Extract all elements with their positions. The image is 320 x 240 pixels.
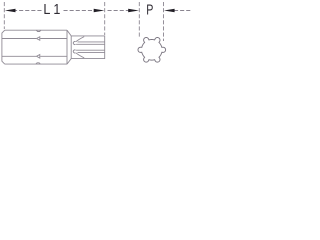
torx end view star xyxy=(138,38,166,63)
torx flute band 2 runout curve and cap xyxy=(73,50,84,58)
torx flute band 2 lower line xyxy=(78,52,105,54)
arrowhead P right (outside, pointing left) xyxy=(164,9,175,13)
chamfer triangle on lower facet line xyxy=(37,55,40,59)
dimension line L1 right segment xyxy=(64,10,95,12)
torx flute band 2 upper line xyxy=(76,49,105,51)
torx flute band 1 upper line xyxy=(78,41,105,43)
extension line left of P xyxy=(138,2,140,39)
hex facet line upper xyxy=(2,38,67,40)
torx flute band 1 lower line xyxy=(76,43,105,45)
hex shank outline (side view) with chamfered left end xyxy=(2,30,67,64)
hex facet line lower xyxy=(2,55,67,57)
svg-text:L 1: L 1 xyxy=(43,2,60,18)
cone lower edge xyxy=(67,59,71,65)
dimension line P left outside segment xyxy=(108,10,130,12)
notch on hex top edge xyxy=(36,30,41,31)
chamfer triangle on upper facet line xyxy=(37,37,40,41)
torx tip outline (side view) xyxy=(71,36,105,59)
arrowhead L1 right xyxy=(94,9,105,13)
arrowhead L1 left xyxy=(5,9,16,13)
arrowhead P left (outside, pointing right) xyxy=(128,9,139,13)
bump on hex bottom edge xyxy=(36,63,41,64)
dimension line L1 left segment xyxy=(13,10,43,12)
extension line right of L1 xyxy=(104,2,106,35)
extension line right of P xyxy=(163,2,165,41)
hex end face xyxy=(66,30,68,64)
cone upper edge xyxy=(67,30,71,36)
torx flute band 1 runout curve and cap xyxy=(73,37,84,45)
svg-text:P: P xyxy=(146,2,153,19)
extension line left of L1 xyxy=(3,2,5,29)
dimension line P right outside segment xyxy=(174,10,191,12)
